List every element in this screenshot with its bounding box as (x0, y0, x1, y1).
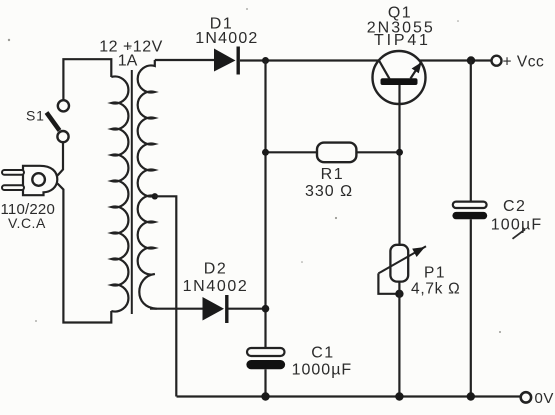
svg-text:1N4002: 1N4002 (195, 30, 258, 47)
diode D2 (203, 297, 225, 321)
AC plug upper prong (2, 170, 24, 175)
rectifier rail wire down to C1 (264, 61, 266, 349)
svg-text:1N4002: 1N4002 (183, 278, 249, 295)
svg-text:R1: R1 (321, 166, 344, 183)
node C1 on 0V rail (261, 392, 269, 400)
wire from center tap to bottom rail (155, 196, 177, 396)
AC plug lower prong (2, 185, 24, 190)
capacitor C1 bottom plate (246, 360, 285, 369)
svg-text:0V: 0V (535, 390, 554, 407)
wire +Vcc node down to C2 (470, 61, 472, 202)
svg-text:S1: S1 (26, 108, 45, 124)
switch S1 upper contact (58, 100, 69, 111)
stray slash of the micro sign (513, 230, 525, 239)
transformer primary winding (111, 77, 128, 312)
svg-text:C2: C2 (503, 198, 526, 215)
potentiometer P1 wiper return wire (378, 273, 399, 293)
transistor Q1 circle (373, 51, 426, 104)
svg-text:1000µF: 1000µF (292, 362, 353, 379)
wire C2 bottom to 0V rail (470, 219, 472, 396)
AC plug hole (32, 173, 45, 186)
switch S1 lower contact (57, 131, 68, 142)
transistor Q1 collector lead (379, 61, 390, 79)
node at D2 output (262, 305, 270, 313)
node at D1 output on rectifier rail (262, 57, 269, 64)
node R1 left (262, 149, 269, 156)
transformer secondary winding (138, 60, 157, 309)
capacitor C1 top plate (247, 348, 285, 356)
terminal 0V (521, 392, 531, 402)
wire secondary bottom to diode D2 (150, 308, 203, 310)
node C2 on 0V rail (467, 392, 475, 400)
terminal +Vcc (492, 56, 502, 66)
potentiometer P1 body (390, 245, 408, 282)
wire D2 to rectifier rail (229, 308, 266, 310)
scan speckles (8, 8, 501, 333)
transistor Q1 emitter lead with arrow (411, 62, 422, 79)
potentiometer P1 arrow (378, 246, 426, 273)
AC plug body (23, 166, 57, 195)
node at +Vcc branch (467, 56, 475, 64)
transformer core (131, 70, 133, 314)
node P1 on 0V rail (395, 392, 403, 400)
0V bottom rail wire (177, 395, 521, 397)
transistor Q1 base wire down to P1 (398, 85, 400, 245)
svg-text:1A: 1A (118, 53, 138, 70)
wire secondary top to diode D1 (155, 59, 214, 61)
wire Q1 emitter to +Vcc terminal (419, 59, 491, 61)
svg-text:TIP41: TIP41 (374, 32, 431, 49)
svg-text:D2: D2 (204, 261, 227, 278)
capacitor C2 top plate (453, 202, 487, 208)
svg-text:4,7k Ω: 4,7k Ω (411, 281, 460, 298)
diode D1 (214, 49, 236, 72)
svg-text:P1: P1 (424, 264, 446, 281)
capacitor C2 bottom plate (452, 212, 487, 219)
wire from switch S1 top to transformer primary top (63, 59, 111, 100)
svg-text:+ Vcc: + Vcc (503, 54, 545, 71)
resistor R1 body (317, 143, 356, 163)
svg-text:100µF: 100µF (491, 217, 543, 234)
svg-text:330 Ω: 330 Ω (305, 183, 353, 200)
svg-text:V.C.A: V.C.A (8, 215, 46, 231)
wire P1 to 0V rail (398, 282, 400, 397)
resistor R1 wires (266, 151, 400, 153)
node P1 bottom (395, 290, 403, 298)
switch S1 lever (47, 113, 60, 131)
secondary center tap node (152, 193, 158, 199)
wire D1 to transistor Q1 (240, 59, 379, 61)
transistor Q1 base bar (381, 78, 418, 85)
svg-text:C1: C1 (311, 344, 334, 361)
node R1 right (396, 149, 403, 156)
wire from switch S1 through plug to transformer primary bottom (58, 142, 112, 322)
wire C1 bottom to 0V rail (264, 369, 266, 396)
